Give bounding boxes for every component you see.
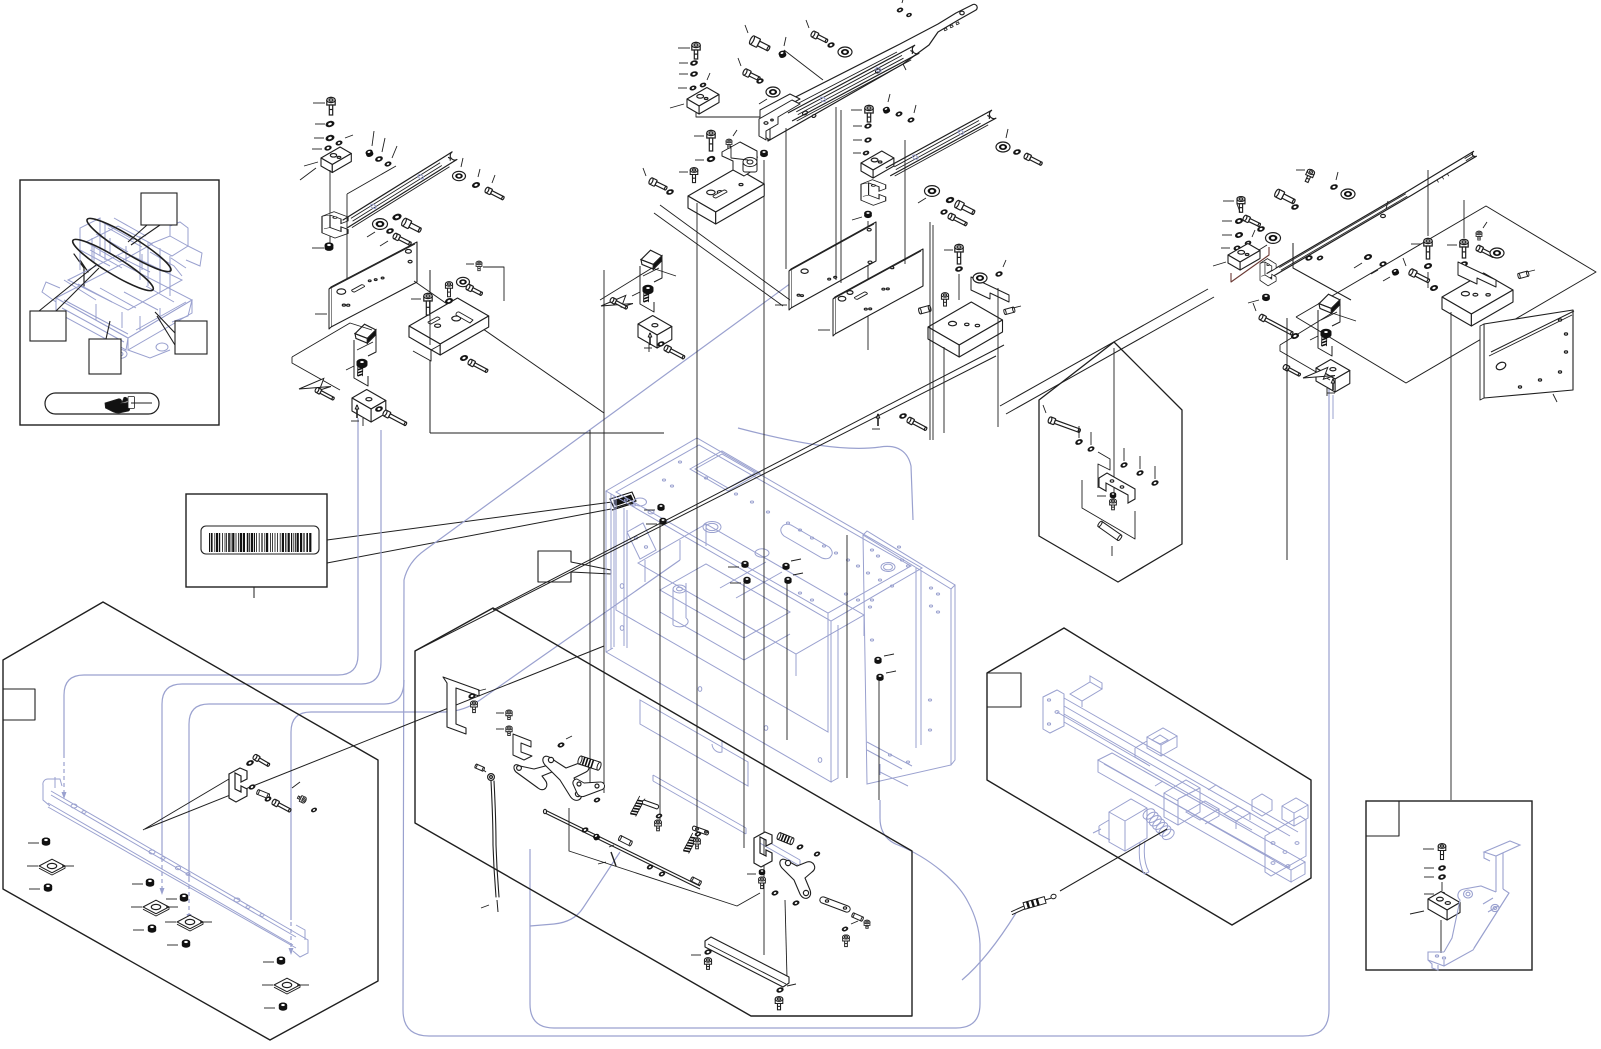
leader line <box>145 646 604 829</box>
nut <box>778 50 787 59</box>
cylinder pin <box>618 835 633 846</box>
roller <box>1266 233 1281 244</box>
bolt <box>609 297 628 310</box>
washer <box>392 213 402 221</box>
screw <box>692 42 700 59</box>
washer <box>325 120 335 128</box>
clamp screw <box>1321 329 1332 338</box>
spring <box>683 833 698 853</box>
leader tick <box>730 582 741 584</box>
leader tick <box>852 217 862 220</box>
leader tick <box>1296 169 1305 171</box>
slot <box>713 190 727 198</box>
screw <box>424 293 432 315</box>
leader tick <box>775 304 787 306</box>
leader tick <box>707 73 710 80</box>
leader tick <box>759 99 767 104</box>
panel label box <box>3 689 35 720</box>
washer <box>1087 446 1095 452</box>
stop bracket sub-assembly <box>229 768 247 802</box>
leader tick <box>304 162 318 166</box>
rail holes <box>802 110 808 115</box>
leader tick <box>1003 260 1006 267</box>
hand leader line <box>131 402 152 404</box>
cylinder pin <box>690 877 702 886</box>
leader tick <box>200 921 212 923</box>
arm detail <box>875 68 881 73</box>
leader tick <box>791 559 801 561</box>
slot <box>428 317 440 324</box>
box label corner <box>1366 801 1399 836</box>
nut <box>1391 268 1400 276</box>
leader tick <box>646 523 657 525</box>
nut <box>743 577 750 584</box>
leader tick <box>1006 129 1008 138</box>
screw <box>843 935 850 947</box>
main pedal lever <box>543 756 589 800</box>
boss cylinder <box>743 157 757 172</box>
bolt <box>1242 215 1261 228</box>
washer <box>1245 240 1252 245</box>
leader tick <box>315 123 325 125</box>
spring <box>644 289 649 302</box>
washer <box>1438 865 1446 871</box>
nut <box>146 879 154 887</box>
block <box>1442 273 1513 314</box>
nut <box>659 518 666 525</box>
screw <box>1476 231 1482 240</box>
washer <box>581 827 588 833</box>
leader tick <box>312 247 324 249</box>
mount frame outline <box>292 323 372 357</box>
washer <box>1120 462 1128 469</box>
leader line <box>731 146 748 160</box>
washer <box>945 196 954 203</box>
bolt <box>382 409 408 427</box>
bolt <box>742 68 761 82</box>
washer <box>594 797 601 803</box>
leader tick <box>292 782 300 788</box>
nut <box>592 833 600 841</box>
leader tick <box>679 73 688 75</box>
washer <box>384 161 391 167</box>
leader tick <box>165 921 176 923</box>
leader tick <box>380 241 388 246</box>
bolt <box>810 30 829 44</box>
leader tick <box>1424 893 1434 895</box>
washer <box>1233 245 1240 251</box>
washer <box>1460 261 1468 267</box>
leader tick <box>1222 220 1232 222</box>
pin <box>1332 379 1334 390</box>
leader tick <box>853 125 862 127</box>
leader tick <box>29 888 40 890</box>
leader tick <box>1213 262 1226 266</box>
leader tick <box>679 62 688 64</box>
clamp plate <box>298 378 331 393</box>
leader tick <box>694 135 704 137</box>
leader tick <box>733 130 737 136</box>
washer <box>557 742 564 748</box>
inner frame outline <box>569 808 760 906</box>
leader line <box>696 203 698 830</box>
connecting link <box>820 897 850 912</box>
leader tick <box>62 865 74 867</box>
washer <box>1291 204 1299 211</box>
block slot <box>456 312 473 323</box>
leader tick <box>1252 230 1255 237</box>
tension bracket assembly <box>346 324 386 426</box>
wedge clip <box>355 324 376 343</box>
callout leader <box>128 225 147 242</box>
screw <box>864 920 870 928</box>
nut <box>42 838 50 846</box>
nut <box>44 884 52 892</box>
leader tick <box>1336 172 1338 180</box>
nut <box>864 211 872 218</box>
lower-center mount panel <box>415 608 912 1016</box>
screw <box>445 282 452 297</box>
roller <box>766 87 780 97</box>
block <box>688 168 764 212</box>
cross rail (reference) <box>43 777 308 957</box>
leader line <box>329 170 331 243</box>
screw <box>759 877 766 889</box>
cylinder pin <box>256 789 270 798</box>
screw <box>690 168 698 183</box>
leader tick <box>1483 222 1487 228</box>
bolt <box>906 417 928 432</box>
roller <box>925 186 940 197</box>
leader tick <box>738 58 741 66</box>
leader tick <box>263 961 274 963</box>
side plate <box>1484 310 1573 398</box>
leader tick <box>478 689 486 691</box>
leader line <box>659 524 661 820</box>
leader tick <box>478 169 480 177</box>
leader tick <box>382 138 385 152</box>
routing wire 9 <box>738 428 913 520</box>
washer <box>1235 218 1244 225</box>
leader tick <box>461 158 463 167</box>
overview inset box <box>20 180 219 425</box>
washer <box>955 266 963 272</box>
callout leader <box>106 321 110 339</box>
screw <box>704 958 711 970</box>
washer <box>324 145 332 151</box>
washer <box>842 926 849 932</box>
leader tick <box>28 842 39 844</box>
rail slot highlight <box>912 154 919 160</box>
screw <box>1438 844 1446 860</box>
washer <box>311 807 318 812</box>
cylinder pin <box>1003 307 1015 315</box>
bolt <box>1274 189 1297 206</box>
bolt <box>1047 416 1081 434</box>
routing wire 3 branch <box>189 680 404 882</box>
nut <box>760 150 768 157</box>
washer <box>468 693 476 699</box>
nut <box>182 940 190 948</box>
leader tick <box>492 175 495 183</box>
pin <box>649 333 651 345</box>
leader tick <box>313 102 325 104</box>
leader tick <box>644 509 655 511</box>
block <box>638 316 672 336</box>
nut <box>180 894 188 902</box>
guide rail <box>890 123 987 176</box>
leader tick <box>793 573 803 575</box>
cylinder pin <box>474 764 484 772</box>
leader tick <box>262 984 273 986</box>
leader tick <box>345 135 353 138</box>
leader line <box>696 112 766 121</box>
tension bracket assembly <box>1310 294 1350 396</box>
cylinder pin <box>1097 521 1122 541</box>
spring <box>630 796 645 816</box>
boss bracket plate <box>722 142 757 176</box>
washer <box>1151 480 1159 487</box>
channel bracket <box>322 212 348 238</box>
screw <box>775 997 783 1010</box>
cylinder pin <box>1517 271 1529 279</box>
leader tick <box>131 906 142 908</box>
leader tick <box>466 263 474 265</box>
cylinder pin <box>776 832 794 845</box>
second link plate <box>642 800 658 809</box>
bolt <box>1023 153 1043 167</box>
leader line <box>483 267 504 301</box>
callout box left <box>30 311 66 341</box>
screw <box>1303 168 1315 183</box>
square washer plate <box>39 859 65 873</box>
nut <box>759 869 765 875</box>
spring <box>1322 333 1327 346</box>
highlight loop 2 <box>68 233 157 297</box>
nut <box>657 504 664 511</box>
bolt <box>947 213 968 228</box>
leader tick <box>918 198 926 203</box>
mount plane leader pair <box>1000 289 1208 406</box>
screw <box>655 820 662 831</box>
washer <box>1430 284 1439 291</box>
washer <box>695 831 702 837</box>
washer <box>1364 253 1373 260</box>
washer <box>1291 332 1300 339</box>
nut <box>279 1003 287 1011</box>
leader line <box>785 900 787 978</box>
leader line <box>878 680 880 800</box>
leader line <box>867 221 869 350</box>
leader tick <box>851 921 858 924</box>
block <box>352 390 386 410</box>
block <box>321 147 351 165</box>
barcode <box>209 533 311 552</box>
leader tick <box>914 105 916 113</box>
rod pin <box>611 852 616 866</box>
leader line <box>1450 312 1452 800</box>
mounting plate <box>791 222 876 308</box>
washer <box>656 813 663 819</box>
leader tick <box>1354 263 1362 268</box>
screw <box>726 139 732 148</box>
leader tick <box>1013 306 1021 308</box>
cylinder pin <box>577 755 602 770</box>
barcode detail box <box>186 494 327 587</box>
washer <box>1438 874 1446 880</box>
leader tick <box>806 20 809 28</box>
washer <box>756 78 764 84</box>
lower-left mount panel <box>3 602 378 1040</box>
leader line <box>414 281 604 413</box>
wedge clip <box>1319 294 1340 313</box>
leader tick <box>1447 244 1457 246</box>
washer <box>658 871 665 877</box>
leader tick <box>851 109 862 111</box>
guide bracket <box>513 734 532 760</box>
clamp plate <box>600 295 633 310</box>
bent bracket <box>1458 262 1496 287</box>
routing wire 8 <box>530 852 620 926</box>
roller <box>1490 248 1504 258</box>
block <box>1316 360 1350 380</box>
square washer plate <box>274 978 300 992</box>
washer <box>864 137 872 143</box>
wedge clip <box>641 250 662 269</box>
block <box>1228 244 1260 263</box>
block <box>409 298 489 344</box>
leader tick <box>902 0 904 3</box>
leader line <box>784 50 823 80</box>
spring <box>358 363 363 376</box>
leader tick <box>1221 247 1230 249</box>
leader tick <box>1424 867 1434 869</box>
pin <box>877 414 879 426</box>
nut <box>1110 492 1116 498</box>
leader tick <box>411 298 421 300</box>
screw <box>1424 238 1432 259</box>
leader tick <box>133 929 144 931</box>
tension bracket assembly <box>632 250 672 352</box>
nut <box>741 561 748 568</box>
washer <box>335 140 342 146</box>
washer <box>264 796 271 802</box>
leader line <box>786 583 788 740</box>
washer <box>657 341 665 347</box>
leader tick <box>728 566 739 568</box>
screw <box>506 710 512 719</box>
leader tick <box>678 87 687 89</box>
roller <box>457 277 470 286</box>
leader line <box>1113 348 1115 502</box>
block <box>861 151 894 170</box>
bolt <box>648 177 668 191</box>
support arm <box>1269 163 1464 278</box>
screw <box>707 130 715 151</box>
nut <box>882 106 891 114</box>
washer <box>1075 438 1083 445</box>
leader tick <box>166 898 177 900</box>
washer <box>472 181 481 188</box>
screw <box>955 244 963 264</box>
washer <box>796 844 803 850</box>
leader line <box>763 160 765 955</box>
callout box right <box>175 321 207 354</box>
machine overview sketch <box>42 198 202 358</box>
block step <box>409 337 431 361</box>
washer <box>700 82 707 87</box>
hold bracket <box>443 677 479 734</box>
square washer plate <box>143 900 169 914</box>
leader line <box>958 274 960 300</box>
barcode leader lines <box>327 502 612 540</box>
bolt <box>1408 268 1431 284</box>
leader tick <box>643 168 646 176</box>
washer <box>897 7 904 13</box>
screw <box>694 838 701 849</box>
screw <box>471 701 478 713</box>
washer <box>689 85 696 91</box>
leader tick <box>27 865 38 867</box>
channel bracket <box>861 180 886 206</box>
routing wire 1 <box>64 418 358 758</box>
rail end bracket <box>759 100 800 140</box>
link plate small <box>692 826 708 835</box>
leader tick <box>679 171 688 173</box>
leader tick <box>132 883 143 885</box>
roller <box>838 47 852 57</box>
link plate <box>573 779 605 797</box>
washer <box>246 759 254 766</box>
view pointer callout <box>538 551 611 582</box>
channel bracket <box>1260 259 1276 286</box>
washer <box>895 111 902 117</box>
mounting plate <box>331 242 417 327</box>
leader tick <box>678 47 690 49</box>
rail slot highlight <box>370 203 377 209</box>
side panel (reference) <box>863 531 955 786</box>
washer <box>704 949 712 955</box>
cable ball end <box>488 774 495 781</box>
screw <box>297 794 308 803</box>
bolt <box>663 345 686 361</box>
washer <box>1439 892 1445 897</box>
nut <box>325 242 334 251</box>
screw <box>865 105 873 122</box>
bolt <box>954 200 976 217</box>
leader tick <box>818 329 830 331</box>
pedal plate <box>705 937 789 987</box>
nut <box>874 657 881 664</box>
washer <box>248 784 255 790</box>
leader tick <box>315 313 327 315</box>
frame leader <box>346 194 348 280</box>
routing wire 6 <box>962 913 1016 980</box>
callout box top <box>141 193 177 225</box>
washer <box>690 71 698 77</box>
leader tick <box>888 94 890 102</box>
leader tick <box>1097 495 1106 497</box>
pivot rod <box>545 810 700 886</box>
leader tick <box>1043 405 1046 413</box>
screw <box>1460 239 1468 258</box>
mount frame outline <box>1098 452 1110 488</box>
leader tick <box>1259 245 1267 250</box>
leader tick <box>367 232 375 237</box>
leader tick <box>372 131 374 146</box>
bolt <box>748 35 771 53</box>
washer <box>706 155 715 162</box>
